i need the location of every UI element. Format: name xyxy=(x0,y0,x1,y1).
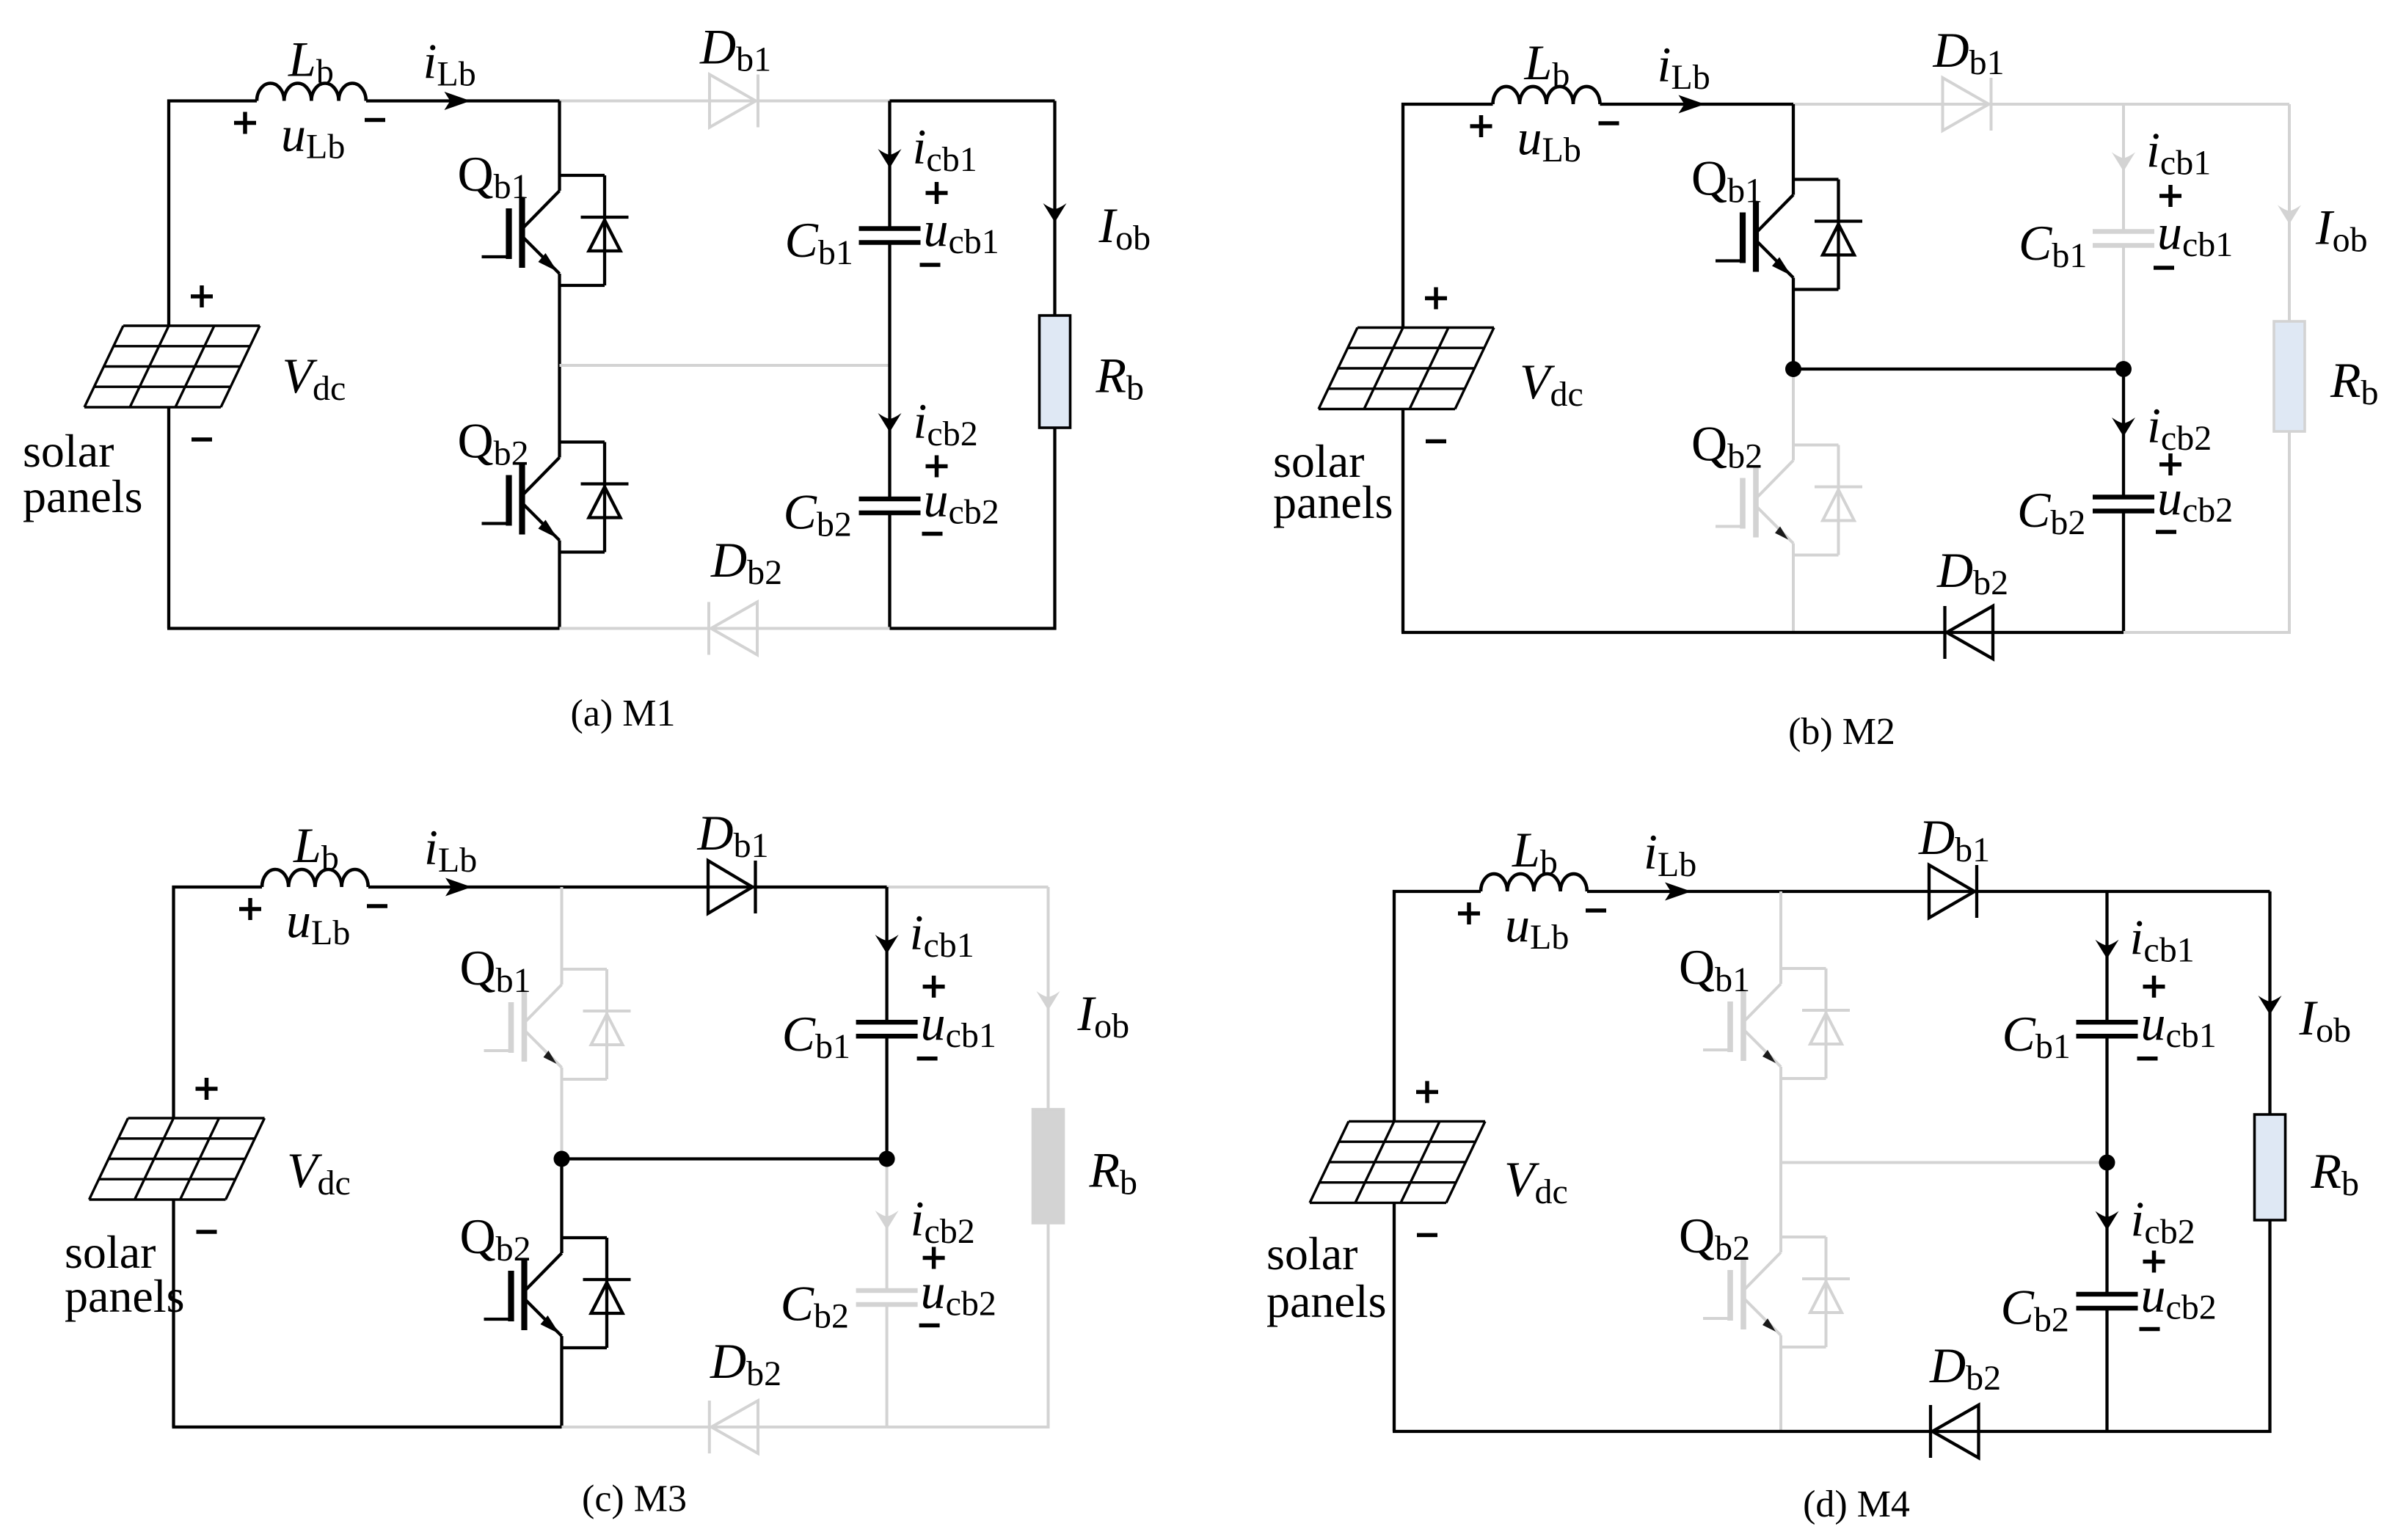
wire: bottom rail left (a) xyxy=(167,627,560,629)
diode Db1 (b) xyxy=(1943,78,1989,131)
diode Db2 (c) xyxy=(712,1401,759,1453)
solar panel symbol (b) xyxy=(1319,328,1494,409)
label source plus (a) xyxy=(191,285,213,307)
label cap2 plus (a) xyxy=(926,456,948,478)
wire: left rail upper (d) xyxy=(1393,890,1396,1121)
wire: branch mid node to Qb2 (b) xyxy=(1792,369,1795,445)
wire: branch Qb1 to mid node (a) xyxy=(558,285,561,365)
node: capacitor mid junction (d) xyxy=(2099,1155,2115,1171)
wire: branch Qb2 to bottom rail (b) xyxy=(1792,555,1795,633)
wire: top rail left of inductor (a) xyxy=(167,99,257,102)
label cap1 minus (b) xyxy=(2154,266,2174,270)
wire: top rail inductor to switch branch, current iLb (c) xyxy=(368,886,562,888)
wire: capacitor column mid node to Cb2 with icb2 (b) xyxy=(2122,369,2125,497)
arrow Iob (d) xyxy=(2259,996,2282,1015)
label inductor minus (c) xyxy=(367,904,387,908)
wire: top rail branch to capacitor column, through Db1 (c) xyxy=(562,886,887,888)
wire: branch top rail to Qb1 (b) xyxy=(1792,104,1795,180)
wire: left rail upper (b) xyxy=(1401,103,1404,328)
node: capacitor mid junction (b) xyxy=(2115,361,2132,377)
wire: branch Qb2 to bottom rail (c) xyxy=(560,1348,563,1427)
wire: branch Qb1 to mid node (c) xyxy=(561,1079,564,1159)
label cap2 minus (a) xyxy=(922,532,943,536)
wire: capacitor column Cb1 to mid node (d) xyxy=(2105,1036,2108,1162)
label inductor plus (b) xyxy=(1470,115,1492,137)
diode Db1 (d) xyxy=(1929,865,1975,918)
inductor Lb (c) xyxy=(262,869,368,887)
node: capacitor mid junction (c) xyxy=(879,1151,895,1167)
arrow icb1 (c) xyxy=(875,935,899,954)
wire: capacitor column mid node to Cb2 with icb2 (a) xyxy=(888,365,891,499)
label cap1 minus (d) xyxy=(2137,1057,2158,1061)
label source minus (d) xyxy=(1417,1233,1437,1238)
arrow icb1 (a) xyxy=(878,149,902,168)
wire: capacitor column Cb1 to mid node (a) xyxy=(888,243,891,366)
wire: left rail upper (c) xyxy=(172,886,175,1118)
wire: mid link branch to capacitor midpoint (d) xyxy=(1781,1161,2107,1164)
wire: top rail inductor to switch branch, current iLb (d) xyxy=(1587,890,1781,893)
wire: capacitor column top with icb1 (a) xyxy=(888,101,891,229)
wire: branch mid node to Qb2 (a) xyxy=(558,365,561,442)
wire: capacitor column bottom (d) xyxy=(2105,1308,2108,1431)
wire: branch Qb1 to mid node (b) xyxy=(1792,290,1795,370)
label cap1 plus (c) xyxy=(923,976,945,998)
resistor Rb (b) xyxy=(2274,321,2305,431)
wire: mid link branch to capacitor midpoint (b) xyxy=(1793,368,2124,371)
wire: left rail upper (a) xyxy=(167,100,170,326)
transistor Qb1 (c) xyxy=(484,969,631,1079)
diode Db1 (a) xyxy=(710,75,756,128)
label source minus (c) xyxy=(197,1230,217,1234)
wire: right rail upper with Iob (b) xyxy=(2288,104,2291,321)
wire: top rail capacitor column to right rail (b) xyxy=(2124,103,2289,106)
wire: top rail left of inductor (b) xyxy=(1401,103,1493,106)
label cap2 plus (d) xyxy=(2143,1251,2165,1273)
wire: top rail capacitor column to right rail (a) xyxy=(890,99,1055,102)
wire: branch top rail to Qb1 (a) xyxy=(558,101,561,176)
label cap1 plus (b) xyxy=(2159,185,2181,207)
solar panel symbol (c) xyxy=(90,1118,265,1200)
svg-text:(a) M1: (a) M1 xyxy=(571,693,676,734)
wire: left rail lower (b) xyxy=(1401,409,1404,633)
wire: capacitor column mid node to Cb2 with icb2 (c) xyxy=(886,1159,889,1291)
transistor Qb1 (d) xyxy=(1703,968,1850,1079)
label cap1 minus (c) xyxy=(917,1057,938,1061)
transistor Qb2 (d) xyxy=(1703,1237,1850,1347)
wire: capacitor column bottom (a) xyxy=(888,513,891,629)
capacitor Cb2 (c) xyxy=(856,1288,918,1293)
wire: bottom rail capacitor column to right rail (a) xyxy=(890,627,1057,629)
wire: right rail upper with Iob (d) xyxy=(2268,891,2271,1114)
resistor Rb (c) xyxy=(1033,1109,1064,1223)
wire: right rail lower (d) xyxy=(2268,1220,2271,1433)
capacitor Cb1 (b) xyxy=(2093,229,2154,234)
wire: capacitor column Cb1 to mid node (b) xyxy=(2122,246,2125,370)
wire: bottom rail left (d) xyxy=(1393,1430,1781,1433)
label cap2 plus (c) xyxy=(923,1247,945,1269)
solar panel symbol (d) xyxy=(1310,1121,1485,1203)
arrow icb1 (b) xyxy=(2112,153,2135,172)
svg-text:(b) M2: (b) M2 xyxy=(1788,711,1895,753)
node: branch/mid junction (b) xyxy=(1785,361,1801,377)
label inductor minus (b) xyxy=(1599,121,1619,125)
wire: capacitor column bottom (b) xyxy=(2122,511,2125,633)
wire: top rail branch to capacitor column, through Db1 (d) xyxy=(1781,890,2107,893)
wire: capacitor column mid node to Cb2 with icb2 (d) xyxy=(2105,1163,2108,1295)
wire: bottom rail branch to capacitor column, through Db2 (d) xyxy=(1781,1430,2107,1433)
arrow iLb (d) xyxy=(1665,883,1691,901)
wire: branch Qb1 to mid node (d) xyxy=(1779,1079,1782,1163)
wire: capacitor column top with icb1 (b) xyxy=(2122,104,2125,232)
label cap2 minus (d) xyxy=(2140,1327,2160,1332)
label cap2 plus (b) xyxy=(2159,453,2181,475)
node: branch/mid junction (c) xyxy=(554,1151,570,1167)
capacitor Cb1 (d) xyxy=(2077,1020,2138,1025)
wire: branch Qb2 to bottom rail (d) xyxy=(1779,1347,1782,1431)
wire: bottom rail capacitor column to right rail (c) xyxy=(887,1426,1050,1428)
wire: branch mid node to Qb2 (d) xyxy=(1779,1163,1782,1238)
label source plus (c) xyxy=(196,1078,218,1100)
capacitor Cb2 (a) xyxy=(859,497,921,502)
arrow Iob (b) xyxy=(2278,205,2301,225)
wire: top rail branch to capacitor column, through Db1 (b) xyxy=(1793,103,2124,106)
wire: top rail capacitor column to right rail (c) xyxy=(887,886,1049,888)
wire: right rail upper with Iob (c) xyxy=(1047,887,1050,1109)
wire: capacitor column top with icb1 (d) xyxy=(2105,891,2108,1022)
solar panel symbol (a) xyxy=(84,326,260,407)
svg-text:panels: panels xyxy=(1273,476,1393,528)
transistor Qb1 (b) xyxy=(1716,180,1862,290)
label cap1 minus (a) xyxy=(920,263,941,267)
resistor Rb (a) xyxy=(1040,315,1071,428)
wire: left rail lower (a) xyxy=(167,407,170,629)
diode Db2 (a) xyxy=(711,602,757,655)
wire: top rail branch to capacitor column, through Db1 (a) xyxy=(560,100,890,103)
arrow icb1 (d) xyxy=(2096,940,2119,959)
wire: bottom rail left (b) xyxy=(1401,631,1793,634)
label cap2 minus (c) xyxy=(919,1324,940,1328)
wire: mid link branch to capacitor midpoint (a) xyxy=(560,364,890,367)
wire: bottom rail capacitor column to right rail (d) xyxy=(2107,1430,2272,1433)
capacitor Cb1 (a) xyxy=(859,226,921,231)
label inductor plus (a) xyxy=(234,112,256,134)
arrow icb2 (b) xyxy=(2112,417,2135,437)
wire: branch Qb2 to bottom rail (a) xyxy=(558,552,561,629)
arrow iLb (b) xyxy=(1679,95,1705,114)
arrow icb2 (d) xyxy=(2096,1211,2119,1230)
transistor Qb2 (a) xyxy=(482,442,629,552)
svg-text:(c) M3: (c) M3 xyxy=(582,1478,687,1520)
label source minus (b) xyxy=(1426,439,1446,444)
wire: capacitor column Cb1 to mid node (c) xyxy=(885,1036,888,1158)
label inductor plus (d) xyxy=(1458,902,1480,924)
wire: top rail inductor to switch branch, current iLb (b) xyxy=(1600,103,1794,106)
arrow iLb (a) xyxy=(445,92,471,110)
wire: bottom rail branch to capacitor column, through Db2 (b) xyxy=(1793,631,2124,634)
inductor Lb (d) xyxy=(1481,874,1587,891)
inductor Lb (a) xyxy=(257,83,366,101)
diode Db1 (c) xyxy=(708,861,753,913)
wire: bottom rail left (c) xyxy=(172,1426,562,1428)
wire: right rail lower (b) xyxy=(2288,431,2291,632)
wire: top rail left of inductor (c) xyxy=(172,886,263,888)
wire: top rail capacitor column to right rail (d) xyxy=(2107,890,2270,893)
wire: branch top rail to Qb1 (d) xyxy=(1779,891,1782,968)
wire: left rail lower (d) xyxy=(1393,1203,1396,1431)
label inductor minus (d) xyxy=(1586,908,1606,913)
label inductor plus (c) xyxy=(239,898,261,920)
inductor Lb (b) xyxy=(1493,87,1600,104)
label cap2 minus (b) xyxy=(2156,530,2176,534)
label source minus (a) xyxy=(192,437,212,442)
capacitor Cb2 (d) xyxy=(2077,1292,2138,1297)
transistor Qb2 (b) xyxy=(1716,445,1862,555)
wire: bottom rail branch to capacitor column, through Db2 (c) xyxy=(562,1426,887,1428)
arrow Iob (a) xyxy=(1043,203,1067,222)
label cap1 plus (a) xyxy=(926,182,948,204)
transistor Qb1 (a) xyxy=(482,175,629,285)
wire: right rail upper with Iob (a) xyxy=(1053,101,1056,316)
arrow Iob (c) xyxy=(1037,991,1060,1010)
label inductor minus (a) xyxy=(365,118,385,123)
arrow icb2 (a) xyxy=(878,413,902,432)
wire: branch mid node to Qb2 (c) xyxy=(560,1159,563,1238)
label source plus (b) xyxy=(1425,288,1447,310)
svg-text:panels: panels xyxy=(1266,1275,1387,1327)
wire: mid link branch to capacitor midpoint (c) xyxy=(562,1157,887,1160)
arrow icb2 (c) xyxy=(875,1211,899,1230)
svg-text:(d) M4: (d) M4 xyxy=(1803,1484,1910,1525)
wire: bottom rail branch to capacitor column, through Db2 (a) xyxy=(560,627,890,630)
svg-text:solar: solar xyxy=(1266,1227,1357,1280)
wire: left rail lower (c) xyxy=(172,1200,175,1427)
wire: right rail lower (c) xyxy=(1047,1223,1050,1427)
arrow iLb (c) xyxy=(445,878,472,897)
capacitor Cb2 (b) xyxy=(2093,495,2154,500)
wire: bottom rail capacitor column to right rail (b) xyxy=(2124,631,2291,634)
wire: capacitor column top with icb1 (c) xyxy=(885,887,888,1022)
label cap1 plus (d) xyxy=(2143,976,2165,998)
diode Db2 (b) xyxy=(1947,606,1993,659)
svg-text:solar: solar xyxy=(23,425,114,477)
diode Db2 (d) xyxy=(1933,1405,1979,1458)
label source plus (d) xyxy=(1416,1081,1438,1103)
wire: capacitor column bottom (c) xyxy=(886,1304,889,1427)
wire: right rail lower (a) xyxy=(1053,428,1056,630)
wire: branch top rail to Qb1 (c) xyxy=(561,887,564,969)
wire: top rail left of inductor (d) xyxy=(1393,890,1481,893)
transistor Qb2 (c) xyxy=(484,1238,631,1348)
wire: top rail inductor to switch branch, current iLb (a) xyxy=(366,99,560,102)
resistor Rb (d) xyxy=(2255,1114,2286,1220)
capacitor Cb1 (c) xyxy=(856,1020,918,1025)
svg-text:panels: panels xyxy=(65,1270,185,1322)
svg-text:panels: panels xyxy=(23,470,143,522)
